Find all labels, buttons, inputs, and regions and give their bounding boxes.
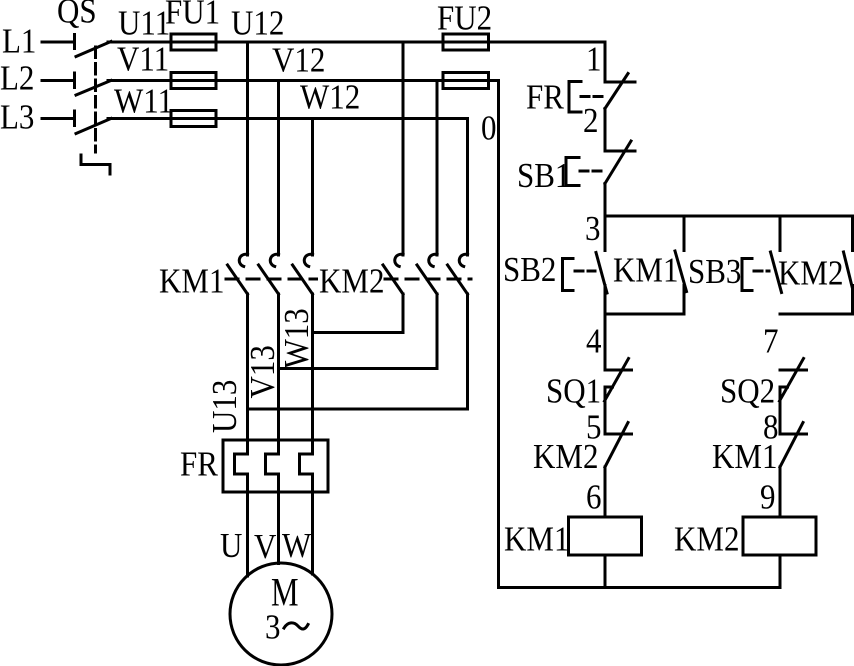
contact KM2 interlock bar [605, 433, 632, 436]
fuse FU1 phase V [171, 73, 216, 89]
wire KM1 aux leg top [683, 216, 686, 251]
svg-text:0: 0 [481, 110, 496, 148]
svg-text:V: V [254, 528, 277, 566]
wire SB3 leg top [779, 216, 782, 251]
svg-text:W13: W13 [278, 308, 316, 368]
switch QS pole 1 terminal [73, 35, 76, 49]
wire L1 lead [42, 41, 75, 44]
switch QS pole 1 blade [76, 42, 111, 57]
svg-text:3: 3 [265, 609, 280, 647]
wire V to KM2 drop [436, 81, 439, 256]
wire SB2 leg bottom [604, 286, 607, 371]
wire W12 drop [311, 119, 314, 256]
svg-text:M: M [271, 570, 299, 615]
contact KM1 interlock bar [780, 433, 807, 436]
FR actuator bracket [569, 82, 581, 113]
button SB1 bracket [566, 158, 579, 186]
button SB1 dashed [580, 170, 604, 173]
switch QS handle [81, 155, 110, 174]
switch QS pole 2 terminal [73, 73, 76, 88]
wire KM1 aux leg bottom [683, 286, 686, 315]
wire U rail [108, 41, 605, 44]
contactor KM1 main contact 1 [228, 254, 248, 294]
svg-text:KM2: KM2 [674, 521, 739, 559]
wire KM2 coil bottom [779, 555, 782, 588]
motor M circle [230, 563, 332, 665]
svg-text:4: 4 [586, 323, 601, 361]
contact KM2 aux blade [844, 252, 854, 293]
wire node 2 [604, 109, 607, 152]
FR actuator dashed [581, 95, 604, 98]
svg-text:V11: V11 [117, 41, 169, 79]
svg-text:U11: U11 [118, 5, 170, 43]
fuse FU1 phase U [171, 34, 216, 50]
button SB3 dashed [754, 270, 769, 273]
wire U13 [246, 294, 249, 454]
svg-text:U13: U13 [206, 380, 244, 433]
wire to node 3 [604, 184, 607, 217]
wire V13 [277, 294, 280, 454]
wire SB2 branch bottom [605, 313, 684, 316]
wire KM2 out to V13 [279, 294, 438, 369]
coil KM1 [569, 517, 642, 555]
contact KM2 interlock blade [605, 423, 628, 468]
svg-text:9: 9 [760, 479, 775, 517]
svg-text:QS: QS [57, 0, 97, 31]
wire L2 lead [42, 79, 75, 82]
contactor KM2 main contact 2 [417, 254, 437, 294]
contact KM1 interlock blade [780, 423, 803, 468]
wire bottom rail [499, 586, 781, 589]
svg-text:V12: V12 [272, 42, 325, 80]
wire node 5 [604, 387, 607, 434]
button SB3 bracket [742, 259, 752, 291]
wire motor U [246, 474, 249, 576]
wire node 9 [779, 467, 782, 517]
limit switch SQ2 seat tick [780, 386, 788, 389]
wire W rail [108, 117, 468, 120]
wire SB2 leg top [604, 216, 607, 251]
wire SB3 branch bottom [780, 313, 853, 316]
svg-text:3: 3 [585, 210, 600, 248]
limit switch SQ1 blade [605, 359, 629, 402]
svg-text:V13: V13 [244, 345, 282, 398]
svg-text:SB2: SB2 [503, 251, 556, 289]
thermal relay FR heater box [223, 440, 328, 492]
svg-text:FR: FR [526, 79, 564, 117]
svg-text:W12: W12 [300, 79, 360, 117]
svg-text:L3: L3 [0, 99, 34, 137]
svg-text:SB1: SB1 [517, 157, 570, 195]
wire node 8 [779, 387, 782, 434]
svg-text:SQ1: SQ1 [546, 373, 601, 411]
FR contact bar [605, 81, 635, 84]
contactor KM1 main contact 3 [293, 254, 313, 294]
svg-text:L2: L2 [0, 60, 34, 98]
button SB3 blade [771, 252, 782, 293]
wire U12 drop [246, 42, 249, 255]
contact KM1 aux blade [675, 251, 687, 292]
wire KM2 out to U13 [248, 294, 468, 409]
fuse FU1 phase W [171, 111, 216, 127]
svg-text:W11: W11 [114, 83, 173, 121]
wire control feed down [604, 42, 607, 82]
svg-text:KM2: KM2 [533, 438, 598, 476]
wire KM2 out to W13 [313, 294, 404, 333]
contactor KM1 main contact 2 [259, 254, 279, 294]
node 3 horizontal [605, 215, 853, 218]
contactor KM2 main contact 3 [448, 254, 468, 294]
switch QS pole 3 blade [76, 119, 111, 134]
FR contact blade [605, 74, 628, 109]
svg-text:6: 6 [586, 479, 601, 517]
FR heater element 2 [266, 454, 279, 474]
wire KM1 coil bottom [604, 555, 607, 588]
wire W13 [311, 294, 314, 454]
switch QS pole 2 blade [76, 81, 111, 96]
wire V12 drop [277, 81, 280, 256]
wire 0 line [497, 81, 500, 588]
button SB2 dashed [575, 270, 595, 273]
switch QS linkage dashed [94, 47, 97, 152]
FR heater element 3 [300, 454, 313, 474]
svg-text:FU2: FU2 [437, 0, 492, 38]
wire W to KM2 drop [466, 119, 469, 256]
limit switch SQ2 blade [780, 359, 804, 402]
wire L3 lead [42, 117, 75, 120]
button SB1 blade [605, 141, 631, 184]
contactor KM2 linkage dashed [385, 278, 471, 281]
wire KM2 aux leg bottom [851, 286, 854, 315]
svg-text:KM1: KM1 [504, 521, 569, 559]
wire U to KM2 drop [402, 42, 405, 255]
svg-text:SQ2: SQ2 [720, 373, 775, 411]
contactor KM1 linkage dashed [226, 278, 317, 281]
fuse FU2 upper [443, 34, 489, 50]
svg-text:1: 1 [586, 41, 601, 79]
wire motor V [277, 474, 280, 564]
button SB1 bar [605, 150, 635, 153]
svg-text:U12: U12 [231, 5, 284, 43]
svg-text:KM1: KM1 [712, 438, 777, 476]
limit switch SQ2 bar [780, 369, 807, 372]
contactor KM2 main contact 1 [383, 254, 403, 294]
svg-text:FU1: FU1 [165, 0, 220, 32]
button SB2 bracket [563, 259, 574, 291]
svg-text:FR: FR [180, 446, 218, 484]
wire V rail [108, 79, 499, 82]
svg-text:L1: L1 [2, 23, 36, 61]
svg-text:U: U [220, 527, 243, 565]
svg-text:KM2: KM2 [319, 263, 384, 301]
svg-text:KM1: KM1 [159, 263, 224, 301]
button SB2 blade [596, 253, 607, 294]
svg-text:2: 2 [583, 102, 598, 140]
svg-text:7: 7 [763, 323, 778, 361]
svg-text:KM2: KM2 [778, 255, 843, 293]
switch QS pole 3 terminal [73, 111, 76, 126]
svg-text:SB3: SB3 [688, 253, 741, 291]
svg-text:W: W [282, 527, 311, 565]
tilde of 3~ [284, 623, 308, 629]
FR heater element 1 [235, 454, 248, 474]
coil KM2 [743, 517, 816, 555]
wire motor W [311, 474, 314, 574]
limit switch SQ1 seat tick [605, 386, 613, 389]
wire node 6 [604, 467, 607, 517]
svg-text:KM1: KM1 [613, 252, 678, 290]
fuse FU2 lower [443, 73, 489, 89]
limit switch SQ1 bar [605, 369, 632, 372]
wire KM2 aux leg top [851, 216, 854, 251]
